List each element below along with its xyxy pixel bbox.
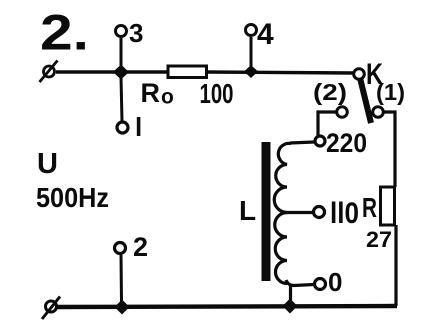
coil bottom exit to tap 0 (286, 280, 314, 286)
wire right rail below resistor (394, 225, 397, 306)
node junction below terminal 2 (115, 300, 130, 315)
terminal 2 (115, 232, 149, 302)
wire top horizontal right segment (205, 72, 354, 73)
wire from contact (1) to right rail (383, 112, 395, 187)
node junction below terminal 3 (113, 65, 129, 80)
svg-text:U: U (37, 148, 58, 180)
terminal 3 (116, 18, 144, 67)
wire tap 220 to coil top (290, 142, 314, 143)
svg-text:220: 220 (326, 128, 367, 158)
terminal 1 (117, 77, 142, 142)
terminal 4 (246, 18, 275, 66)
svg-text:3: 3 (129, 18, 143, 48)
svg-text:(2): (2) (313, 79, 347, 105)
tap 110 terminal (314, 207, 325, 218)
tap 0 terminal (315, 279, 326, 290)
svg-text:2.: 2. (40, 5, 89, 61)
switch blade (360, 78, 371, 123)
svg-text:l: l (135, 112, 142, 142)
svg-text:27: 27 (366, 227, 392, 252)
label Ro (141, 78, 174, 109)
switch contact (2) (337, 107, 348, 118)
wire coil bottom to bottom rail (289, 285, 292, 305)
wire top horizontal left segment (56, 70, 169, 73)
svg-text:L: L (239, 195, 256, 226)
tap 220 terminal (315, 136, 325, 146)
resistor Ro (168, 66, 207, 78)
input terminal (bottom left) (42, 297, 60, 320)
switch K pivot (354, 69, 365, 80)
svg-text:R: R (141, 78, 161, 108)
transformer core (262, 142, 271, 281)
wire from contact (2) down to tap 220 (318, 112, 337, 136)
switch contact (1) (373, 107, 384, 118)
svg-text:2: 2 (133, 232, 148, 262)
bottom wire (57, 306, 397, 307)
tap 110 wire (285, 211, 313, 214)
inductor coil L (274, 143, 291, 283)
input terminal (top left) (40, 61, 58, 83)
svg-text:(1): (1) (376, 79, 405, 105)
node junction below terminal 4 (244, 65, 258, 78)
svg-text:100: 100 (200, 78, 234, 109)
svg-text:500Hz: 500Hz (36, 182, 109, 213)
svg-text:R: R (362, 192, 377, 223)
svg-text:ll0: ll0 (330, 197, 359, 230)
node junction bottom center (283, 299, 298, 314)
svg-text:0: 0 (328, 267, 342, 297)
svg-text:4: 4 (257, 18, 274, 51)
svg-text:o: o (161, 86, 174, 109)
resistor R (381, 187, 395, 225)
